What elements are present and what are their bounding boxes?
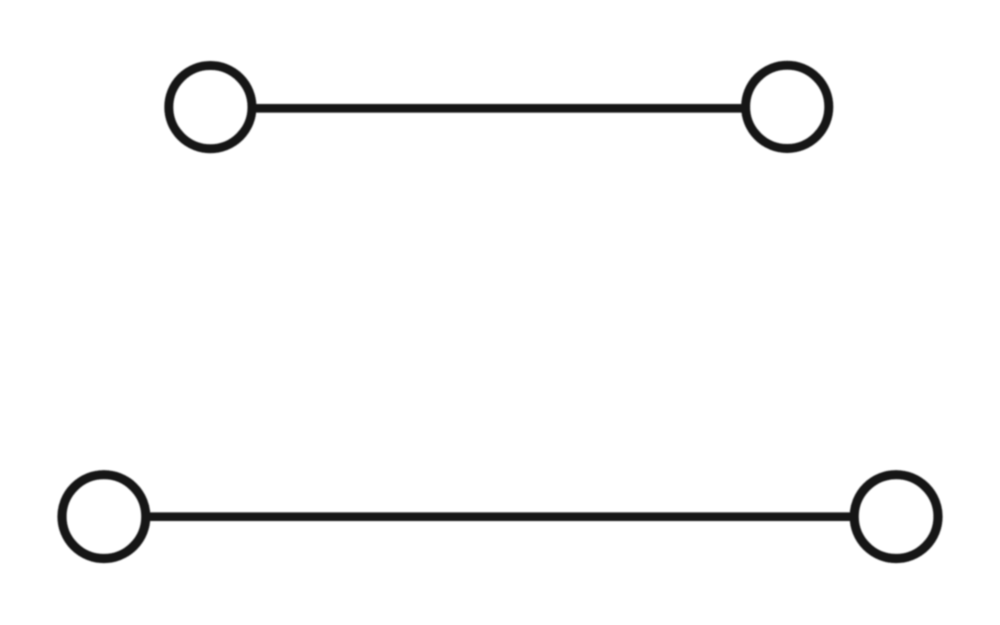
terminal circle 1.1 (upper level, left): [169, 66, 252, 149]
wire (upper level conductor): [252, 104, 746, 113]
terminal circle 1.2 (upper level, right): [746, 65, 829, 148]
terminal circle 2.2 (lower level, right): [854, 475, 938, 559]
wire (lower level conductor): [146, 512, 855, 521]
terminal circle 2.1 (lower level, left): [62, 475, 146, 559]
